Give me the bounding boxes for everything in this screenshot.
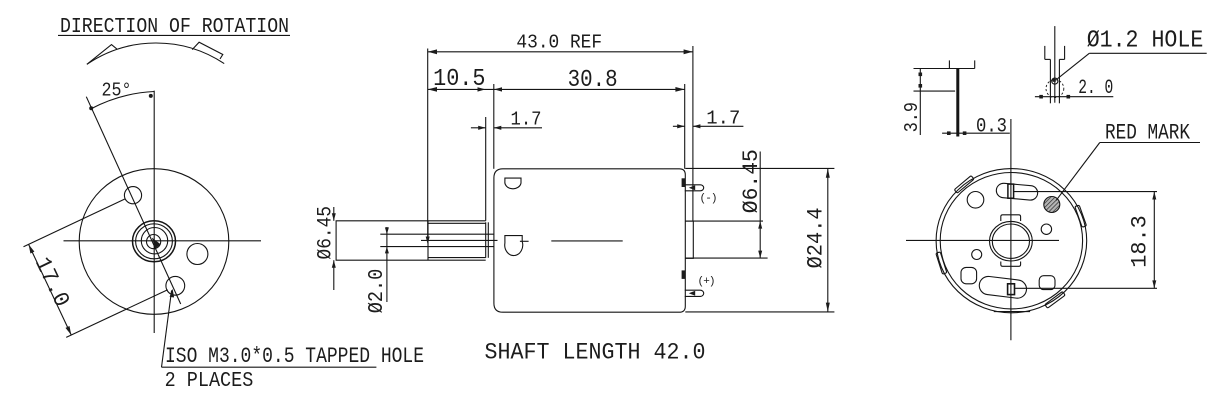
svg-text:1.7: 1.7 [511,109,542,131]
dim 10.5/30.8 line [428,88,685,90]
dim 30.8 arrow left blob [494,87,502,91]
rotation arrowhead right (open) [192,42,223,59]
rear hole upper-left [967,192,984,209]
terminal front detail wings [1044,46,1046,60]
RED MARK underline [1100,142,1200,144]
red mark hatched circle [1044,197,1060,213]
terminal front detail centerline [1054,26,1056,103]
dia1.2 leader dot [1053,79,1056,82]
short line from lower D [520,240,529,242]
dim 18.3 arrows [1152,192,1156,200]
terminal side-view detail top line [914,68,975,70]
bushing step face [427,221,429,260]
svg-text:2 PLACES: 2 PLACES [165,370,254,393]
dim 43.0 line [428,51,693,53]
bearing boss outer [990,221,1033,261]
dim 10.5 arrow right blob [478,87,486,91]
dim 17.0 line [29,244,72,335]
dim dia6.45 front arrows [332,213,336,221]
dim 2.0 line [1035,96,1113,98]
rotation direction arc [87,43,224,64]
dim dia2.0 line [386,227,388,302]
front hub ring 3 [141,228,167,254]
crimp tab lower-right [1045,291,1065,308]
rear hole mid-left [972,250,982,260]
body hole lower D [505,236,523,256]
terminal front detail eyelet dashed circle [1046,80,1064,98]
extension line body left face up [493,84,495,169]
svg-text:3.9: 3.9 [901,102,923,132]
RED MARK leader [1056,143,1100,201]
dim 0.3 line [942,132,1010,134]
dim 17.0 arrow lower [66,326,72,335]
dim dia24.4 arrows [826,168,830,177]
rear outline outer [936,169,1087,313]
front hub ring outer [133,221,176,262]
dim 1.7 right arrows [677,124,685,128]
leader line to ISO text [162,290,172,367]
25 deg arc end dots [89,106,93,110]
terminal plus arrow [689,291,695,296]
front bushing outline [336,221,486,260]
dia1.2 leader [1058,53,1090,78]
dim dia2.0 arrows [385,227,389,234]
terminal minus tab [682,178,685,187]
dim 2.0 dots [1039,95,1043,99]
shaft top line [380,233,494,235]
dim dia6.45 rear extension lines [685,220,763,222]
dia1.2 underline [1089,52,1206,54]
front shaft circle [147,235,161,249]
extension line right (boss end) [692,46,694,221]
diagonal hole axis line [86,97,180,304]
svg-text:(+): (+) [698,276,716,288]
svg-text:SHAFT LENGTH 42.0: SHAFT LENGTH 42.0 [485,340,706,366]
terminal front detail hole [1052,78,1058,84]
terminal plus eyelet [685,290,704,296]
crimp tab right [1075,205,1087,227]
svg-text:Ø24.4: Ø24.4 [803,207,829,268]
svg-text:(-): (-) [700,193,718,205]
dim 43.0 arrow right [684,49,693,54]
rotation arrowhead left (open) [87,45,117,65]
hub leader arrowhead [152,238,161,249]
dim 1.7 right line segments [673,125,685,127]
rear bottom flat [994,311,1030,313]
tapped hole lower [166,276,185,295]
svg-text:RED MARK: RED MARK [1105,120,1191,145]
dim 17.0 extension line upper [24,199,126,247]
horizontal centerline left view [64,240,262,242]
title underline [58,34,290,36]
terminal side-view rim ticks [948,60,950,68]
svg-text:2. 0: 2. 0 [1078,77,1113,100]
dim 1.7 left line segments [471,127,486,129]
dim 10.5 arrow left [428,87,437,92]
front hub ring 2 [136,224,173,259]
terminal side-view thick terminal [956,69,959,137]
terminal side-view base line [914,90,956,92]
rear hole lower-right [1039,276,1055,290]
dim dia24.4 line [827,168,829,312]
crimp tab upper-left [954,176,974,194]
bushing inner step lines [428,222,486,224]
body hole upper D [505,178,521,189]
dim 17.0 extension line lower [66,290,168,338]
extension line bushing end up [485,117,487,221]
brush terminal lower [1008,284,1015,295]
leader arrowhead at lower tapped hole [170,289,175,298]
svg-text:ISO M3.0*0.5 TAPPED HOLE: ISO M3.0*0.5 TAPPED HOLE [165,344,424,369]
svg-text:0.3: 0.3 [976,116,1007,139]
dim 18.3 extension lines [1014,191,1157,193]
extension arrow at centerline [426,237,430,245]
dim dia24.4 extension lines [685,167,834,169]
rear horizontal centerline [906,239,1059,241]
extension line left (step face) [427,49,429,238]
svg-text:17.0: 17.0 [29,253,75,311]
dim 3.9 line [919,69,921,136]
dim 30.8 arrow right [675,87,684,92]
rear vertical centerline [1010,119,1012,340]
svg-text:Ø2.0: Ø2.0 [366,269,389,314]
rear outline inner [940,173,1082,309]
dim 1.7 left arrows [478,126,486,130]
vent slot upper [996,183,1038,201]
shaft bottom line [380,246,494,248]
svg-text:43.0 REF: 43.0 REF [516,31,602,53]
brush terminal upper [1008,184,1014,198]
crimp tab lower-left [936,252,947,274]
bearing boss inner [992,224,1029,258]
pilot hole right [187,244,208,265]
body centerline segment [551,240,622,242]
bearing top clip [1001,215,1021,221]
tapped hole upper-left [124,187,141,204]
rear hole right [1041,224,1051,234]
rear hole lower-left [961,267,977,283]
terminal plus tab [682,270,685,279]
svg-text:18.3: 18.3 [1127,215,1152,268]
dim 0.3 dots [947,131,951,135]
motor body outline [494,169,685,312]
shaft centerline [421,239,498,241]
rear boss [685,221,693,258]
motor front face outline [79,169,229,315]
terminal minus eyelet [685,185,704,191]
dim dia6.45 rear line [759,152,761,259]
dim dia6.45 front lines [333,207,335,221]
svg-text:Ø6.45: Ø6.45 [738,149,764,213]
dim 18.3 line [1153,192,1155,289]
extension line body right face up [684,84,686,169]
ISO underline [162,366,377,368]
dim 43.0 arrow left [428,49,437,54]
25 deg dimension arc [91,92,155,110]
bearing bottom clip [1001,262,1021,267]
svg-text:Ø1.2 HOLE: Ø1.2 HOLE [1087,28,1204,55]
terminal minus arrow [689,185,695,190]
dim 3.9 dots [919,73,923,77]
dim dia6.45 rear arrows [758,221,762,229]
vent slot lower [978,275,1027,299]
dim 17.0 arrow upper [29,244,35,253]
vertical centerline left view [153,91,155,333]
bushing end face double line [485,222,487,257]
terminal front detail strip [1049,59,1051,103]
